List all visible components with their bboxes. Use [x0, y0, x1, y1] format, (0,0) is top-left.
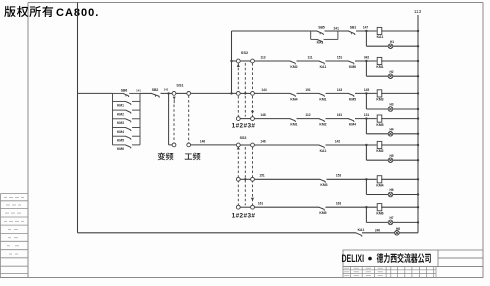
svg-text:KM4: KM4 — [349, 123, 356, 127]
node SS3 terminal rung6 left (terminal circle) — [236, 177, 240, 181]
contact contact KM3 (rung6) — [320, 179, 326, 182]
svg-text:SB1: SB1 — [350, 26, 357, 30]
wire KM ladder row 1 (left segment) — [113, 100, 126, 102]
svg-text:KA1: KA1 — [358, 228, 365, 232]
wire KM ladder row 6 (right segment) — [132, 144, 140, 146]
contact contact KM2 (rung4) — [319, 119, 325, 122]
wire SS3 column 3 (dashed) — [252, 147, 254, 205]
wire rung5 wire between SS3 terminals — [240, 144, 250, 146]
drawing frame right border — [482, 3, 484, 278]
node junction rung1 lamp tap (junction) — [365, 30, 367, 32]
svg-text:241: 241 — [334, 27, 340, 31]
wire rung2 wire segment — [326, 60, 349, 62]
svg-text:161: 161 — [337, 113, 343, 117]
wire rung2 wire to coil — [355, 60, 377, 62]
contact contact KM2 (ladder row) — [126, 110, 131, 114]
wire rung6 lamp to bus — [392, 194, 418, 196]
svg-text:H8: H8 — [396, 227, 400, 231]
wire main wire: ladder to SB2 — [140, 92, 152, 94]
contact contact KA1 (seal-in) — [317, 39, 323, 42]
wire rung3 wire segment — [297, 92, 320, 94]
svg-text:SB5: SB5 — [318, 26, 325, 30]
svg-text:H6: H6 — [389, 188, 393, 192]
svg-text:144: 144 — [261, 88, 267, 92]
svg-text:KM3: KM3 — [376, 98, 383, 102]
node SS2 terminal rung4 left (terminal circle) — [236, 117, 240, 121]
wire rung4 lamp branch horizontal — [366, 133, 388, 135]
contact pushbutton SB2 — [151, 93, 159, 97]
wire main wire over ladder (right segment) — [129, 92, 140, 94]
wire rung6 lamp branch horizontal — [366, 194, 388, 196]
contact contact KM5 (rung7) — [319, 207, 325, 210]
wire rung1 coil to bus — [381, 30, 418, 32]
svg-text:146: 146 — [260, 139, 266, 143]
wire rung4 wire segment — [297, 118, 320, 120]
KM parallel contact ladder right rail — [139, 93, 141, 144]
coil KM3 — [377, 90, 382, 97]
node junction rung2 on sub rail (junction) — [230, 60, 232, 62]
svg-text:KA1: KA1 — [320, 65, 327, 69]
wire SS1 column 工频 (dashed) — [188, 95, 190, 142]
contact contact KM5 (ladder row) — [126, 136, 131, 140]
wire rung1 from sub rail — [232, 30, 311, 32]
svg-text:151: 151 — [259, 174, 265, 178]
svg-text:SB6: SB6 — [121, 88, 128, 92]
node SS2 terminal rung2 right (terminal circle) — [251, 59, 255, 63]
node SS3 terminal rung5 left (terminal circle) — [236, 143, 240, 147]
wire rung2 lamp branch vertical — [365, 61, 367, 76]
svg-text:240: 240 — [375, 228, 381, 232]
svg-text:KM1: KM1 — [290, 123, 297, 127]
wire rung4 wire between SS2 terminals — [240, 118, 250, 120]
node junction rung2 lamp tap (junction) — [365, 60, 367, 62]
wire rung2 coil to bus — [381, 60, 418, 62]
coil KM6 — [377, 204, 382, 211]
wire rung1 parallel branch bottom (right segment) — [324, 38, 338, 40]
svg-text:KM6: KM6 — [117, 147, 124, 151]
title block grid faint texts — [344, 268, 383, 275]
wire KM ladder row 4 (right segment) — [132, 127, 140, 129]
wire rung6 coil to bus — [381, 178, 418, 180]
node junction rung1 lamp on bus (junction) — [417, 45, 419, 47]
wire rung6 lamp branch vertical — [365, 179, 367, 194]
left margin revision table — [1, 194, 28, 278]
wire SS1 column 变频 (dashed) — [173, 105, 175, 142]
svg-text:113: 113 — [260, 55, 265, 59]
svg-text:KM4: KM4 — [376, 184, 383, 188]
coil KM4 — [377, 176, 382, 183]
coil KM5 — [377, 115, 382, 122]
arrow SS2 wiper rung2 (selector wiper arrow) — [237, 64, 240, 67]
lamp H7 — [388, 220, 393, 225]
node junction rung1 on bus (junction) — [417, 30, 419, 32]
contact contact KM2 (rung2) — [290, 61, 296, 64]
wire SS3 column 2 (common) (dashed) — [244, 147, 246, 205]
svg-text:KM3: KM3 — [117, 121, 124, 125]
lamp H2 — [388, 74, 393, 79]
contact contact KM3 (ladder row) — [126, 119, 131, 123]
svg-text:1#2#3#: 1#2#3# — [232, 123, 256, 130]
svg-text:KM1: KM1 — [319, 97, 326, 101]
contact pushbutton SB1 (stop) — [348, 31, 355, 35]
svg-text:KM6: KM6 — [376, 211, 383, 215]
contact contact KA1 (bottom rail) — [356, 233, 362, 237]
node junction rung4 lamp on bus (junction) — [417, 133, 419, 135]
arrow SS2 wiper rung4 (selector wiper arrow) — [251, 111, 254, 114]
label 变频 — [158, 152, 174, 160]
svg-text:KM5: KM5 — [349, 97, 356, 101]
contact contact KM1 (rung3) — [319, 93, 325, 96]
svg-text:H7: H7 — [389, 216, 393, 220]
wire KM ladder row 3 (left segment) — [113, 118, 126, 120]
node junction rung7 on bus (junction) — [417, 206, 419, 208]
wire rung1 parallel branch bottom (left segment) — [311, 38, 318, 40]
wire rung3 wire segment — [326, 92, 349, 94]
node SS2 terminal main left (terminal circle) — [236, 92, 240, 96]
svg-text:KM4: KM4 — [290, 97, 297, 101]
coil KM2 — [377, 141, 382, 148]
svg-text:KM5: KM5 — [376, 123, 383, 127]
logo bullet — [368, 257, 372, 261]
svg-text:SS2: SS2 — [241, 51, 248, 55]
contact pushbutton SB6 (on main wire) — [123, 93, 129, 97]
wire rung6 wire between SS3 terminals — [240, 178, 250, 180]
wire rung7 lamp branch vertical — [365, 207, 367, 222]
arrow SS1 wiper (below common terminal) — [173, 97, 176, 100]
wire rung5 lamp to bus — [392, 159, 418, 161]
arrow SS3 wiper rung5 (selector wiper arrow) — [237, 146, 240, 149]
svg-text:1#2#3#: 1#2#3# — [232, 212, 256, 219]
wire SS2 column 3 (dashed) — [252, 63, 254, 117]
svg-text:KM2: KM2 — [319, 123, 326, 127]
svg-text:142: 142 — [335, 139, 341, 143]
svg-text:KM5: KM5 — [319, 211, 326, 215]
wire rung7 lamp to bus — [392, 221, 418, 223]
contact contact KA1 (rung2) — [319, 61, 325, 64]
watermark 版权所有CA800 — [4, 6, 53, 17]
node SS3 terminal rung5 right (terminal circle) — [251, 143, 255, 147]
wire rung3 wire between SS2 terminals — [240, 92, 250, 94]
contact pushbutton SB5 (start) — [317, 31, 324, 35]
wire rung1 wire to SB1 — [338, 30, 349, 32]
wire rung4 lamp branch vertical — [365, 119, 367, 134]
svg-text:DELIXI: DELIXI — [342, 253, 365, 265]
wire rung6 wire segment — [254, 178, 320, 180]
lamp H4 — [388, 132, 393, 137]
lamp H6 — [388, 192, 393, 197]
svg-text:H1: H1 — [390, 40, 394, 44]
contact contact KM4 (rung3) — [290, 93, 296, 96]
svg-text:145: 145 — [364, 88, 370, 92]
node junction rung7 lamp on bus (junction) — [417, 221, 419, 223]
wire rung7 wire segment — [254, 206, 319, 208]
svg-text:SB2: SB2 — [152, 88, 159, 92]
wire rung4 lamp to bus — [392, 133, 418, 135]
wire rung1 lamp branch horizontal — [366, 45, 388, 47]
wire rung3 lamp to bus — [392, 108, 418, 110]
svg-text:141: 141 — [164, 88, 169, 92]
contact contact KM4 (ladder row) — [126, 128, 131, 132]
wire feed wire 工频 to SS3 — [191, 144, 237, 146]
node junction rung2 lamp on bus (junction) — [417, 75, 419, 77]
wire rung7 coil to bus — [381, 206, 418, 208]
lamp H1 — [388, 44, 393, 49]
wire KM ladder row 5 (left segment) — [113, 135, 126, 137]
node junction rung6 on bus (junction) — [417, 178, 419, 180]
left margin table row texts — [4, 197, 24, 254]
wire KM ladder row 4 (left segment) — [113, 127, 126, 129]
wire rung4 wire segment — [254, 118, 290, 120]
wire rung4 wire to coil — [355, 118, 377, 120]
logo 德力西交流器公司 — [377, 253, 431, 263]
svg-text:153: 153 — [336, 174, 342, 178]
node junction SS2 common on main wire (junction) — [244, 92, 246, 94]
lamp H5 — [388, 158, 393, 163]
svg-text:146: 146 — [200, 139, 206, 143]
svg-text:KM1: KM1 — [117, 104, 124, 108]
svg-text:113: 113 — [414, 9, 422, 14]
wire KM ladder row 1 (right segment) — [132, 100, 140, 102]
node junction sub-rail / main wire (junction) — [230, 92, 232, 94]
wire sub rail feeding rungs 1-2 — [231, 31, 233, 93]
wire KM ladder row 3 (right segment) — [132, 118, 140, 120]
svg-text:143: 143 — [337, 88, 343, 92]
node junction rung5 lamp tap (junction) — [365, 144, 367, 146]
arrow SS3 wiper rung7 (selector wiper arrow) — [251, 198, 254, 201]
wire rung5 coil to bus — [381, 144, 418, 146]
node SS1 terminal (top right) (terminal circle) — [187, 92, 191, 96]
svg-text:KM6: KM6 — [349, 65, 356, 69]
wire rung6 wire to coil — [327, 178, 377, 180]
node junction rung7 lamp tap (junction) — [365, 206, 367, 208]
node junction feeder on main wire (junction) — [167, 92, 169, 94]
wire rung1 wire to coil KA1 — [356, 30, 377, 32]
svg-text:H2: H2 — [389, 70, 393, 74]
node junction rung5 on bus (junction) — [417, 144, 419, 146]
node SS1 terminal common (top left) (terminal circle) — [172, 92, 176, 96]
wire rung4 wire segment — [326, 118, 349, 120]
wire rung1 parallel branch right vertical — [337, 31, 339, 39]
wire rung1 top branch exit — [325, 30, 338, 32]
wire SS3 column 1 (dashed) — [237, 147, 239, 205]
drawing frame left border — [27, 3, 29, 278]
svg-text:151: 151 — [337, 55, 343, 59]
svg-text:H3: H3 — [389, 103, 393, 107]
wire KM ladder row 2 (left segment) — [113, 109, 126, 111]
contact contact KA1 (rung5) — [319, 145, 325, 148]
svg-text:KM1: KM1 — [376, 65, 383, 69]
contact contact KM1 (ladder row) — [126, 101, 131, 105]
wire KM ladder row 6 (left segment) — [113, 144, 126, 146]
node SS2 terminal rung4 right (terminal circle) — [251, 117, 255, 121]
wire rung2 stub from sub rail — [232, 60, 237, 62]
wire feeder to 变频 terminal (horizontal) — [169, 144, 173, 146]
svg-text:KM2: KM2 — [117, 112, 124, 116]
svg-text:KM4: KM4 — [117, 130, 124, 134]
wire KM ladder row 5 (right segment) — [132, 135, 140, 137]
node SS1 terminal 变频 (bottom left) (terminal circle) — [172, 143, 176, 147]
contact contact KM6 (rung2) — [348, 61, 354, 64]
wire main wire: SB2 to SS1 — [161, 92, 173, 94]
contact contact KM5 (rung3) — [348, 93, 354, 96]
wire SS2 column 1 (dashed) — [237, 63, 239, 117]
svg-text:141: 141 — [136, 89, 141, 93]
svg-text:342: 342 — [364, 55, 370, 59]
svg-text:163: 163 — [336, 202, 342, 206]
KM parallel contact ladder left rail — [112, 93, 114, 144]
wire main wire SS1 to SS2 — [191, 92, 237, 94]
node junction rung5 lamp on bus (junction) — [417, 159, 419, 161]
wire main wire over ladder (left segment) — [113, 92, 124, 94]
contact contact KM4 (rung4) — [348, 119, 354, 122]
label 工频 — [185, 153, 201, 161]
wire rung5 lamp branch horizontal — [366, 159, 388, 161]
svg-text:KM3: KM3 — [320, 183, 327, 187]
wire rung2 lamp to bus — [392, 75, 418, 77]
wire rung3 wire segment — [254, 92, 290, 94]
node junction rung3 lamp tap (junction) — [365, 92, 367, 94]
wire rung1 parallel branch left vertical — [310, 31, 312, 39]
wire rung4 coil to bus — [381, 118, 418, 120]
svg-text:147: 147 — [363, 25, 369, 29]
svg-text:191: 191 — [305, 88, 311, 92]
wire KM ladder row 2 (right segment) — [132, 109, 140, 111]
svg-text:112: 112 — [305, 113, 310, 117]
svg-text:111: 111 — [308, 55, 313, 59]
wire rung5 wire to coil — [326, 144, 377, 146]
wire main wire through SS1 terminals — [176, 92, 187, 94]
wire rung1 top branch lead — [311, 30, 318, 32]
title block outline — [343, 250, 483, 278]
svg-text:KM2: KM2 — [376, 149, 383, 153]
svg-text:KM2: KM2 — [290, 65, 297, 69]
node SS2 terminal main right (terminal circle) — [251, 92, 255, 96]
wire rung1 lamp branch vertical — [365, 31, 367, 46]
node SS3 terminal rung7 right (terminal circle) — [251, 205, 255, 209]
lamp H3 — [388, 107, 393, 112]
svg-text:148: 148 — [260, 113, 266, 117]
node junction rung2 on bus (junction) — [417, 60, 419, 62]
node junction rung6 lamp on bus (junction) — [417, 193, 419, 195]
node junction rung3 lamp on bus (junction) — [417, 108, 419, 110]
node SS2 terminal rung2 left (terminal circle) — [236, 59, 240, 63]
wire rung7 wire between SS3 terminals — [240, 206, 250, 208]
wire rung2 wire segment — [254, 60, 290, 62]
wire rung3 lamp branch vertical — [365, 93, 367, 109]
svg-text:161: 161 — [258, 202, 264, 206]
wire rung5 wire segment — [254, 144, 319, 146]
lamp H8 — [395, 231, 400, 236]
svg-text:KA1: KA1 — [377, 35, 384, 39]
wire rung7 wire to coil — [326, 206, 377, 208]
wire rung2 wire segment — [297, 60, 320, 62]
wire rung5 lamp branch vertical — [365, 145, 367, 160]
drawing frame top border — [28, 2, 483, 4]
drawing frame bottom border — [0, 277, 483, 279]
logo DELIXI 德力西交流器公司 — [342, 253, 365, 265]
wire left supply rail L — [77, 3, 79, 233]
node SS3 terminal rung7 left (terminal circle) — [236, 205, 240, 209]
svg-text:H4: H4 — [389, 128, 393, 132]
wire feeder to 变频 terminal (vertical) — [168, 93, 170, 144]
svg-text:H5: H5 — [389, 154, 393, 158]
title block grid — [343, 267, 436, 278]
coil KM1 — [377, 57, 382, 64]
wire rung3 lamp branch horizontal — [366, 108, 388, 110]
svg-text:131: 131 — [364, 113, 370, 117]
node SS1 terminal 工频 (bottom right) (terminal circle) — [187, 143, 191, 147]
wire right bus — [417, 15, 419, 233]
wire bottom return rail N (left) — [78, 232, 357, 234]
node junction rung3 on bus (junction) — [417, 92, 419, 94]
node junction SS3 common on rung 6 (junction) — [244, 178, 246, 180]
wire rung1 lamp to bus — [392, 45, 418, 47]
node junction rung4 on bus (junction) — [417, 117, 419, 119]
wire rung3 coil to bus — [381, 92, 418, 94]
wire main feed from rail to KM ladder — [78, 92, 113, 94]
wire SS2 column 2 (common) (dashed) — [244, 63, 246, 117]
node SS3 terminal rung6 right (terminal circle) — [251, 177, 255, 181]
node junction rung6 lamp tap (junction) — [365, 178, 367, 180]
svg-text:SS3: SS3 — [240, 136, 247, 140]
svg-text:KM5: KM5 — [117, 139, 124, 143]
wire bottom return rail N (right) — [362, 232, 418, 234]
node junction rung4 lamp tap (junction) — [365, 117, 367, 119]
svg-text:KA1: KA1 — [320, 149, 327, 153]
wire rung2 wire between SS2 terminals — [240, 60, 250, 62]
contact contact KM1 (rung4) — [290, 119, 296, 122]
svg-text:SS1: SS1 — [176, 83, 183, 87]
coil KA1 — [377, 27, 382, 34]
wire rung3 wire to coil — [355, 92, 377, 94]
contact contact KM6 (ladder row) — [126, 145, 131, 149]
wire rung2 lamp branch horizontal — [366, 75, 388, 77]
wire rung7 lamp branch horizontal — [366, 221, 388, 223]
